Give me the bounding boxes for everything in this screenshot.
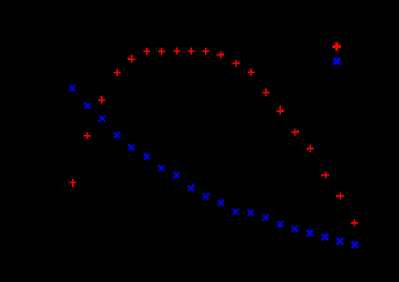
blue series data point 6: [144, 153, 150, 159]
blue series data point 18: [322, 234, 329, 241]
blue series data point 11: [218, 199, 224, 206]
blue series data point 20: [352, 241, 359, 248]
blue series data point 17: [307, 230, 314, 237]
blue series data point 2: [84, 103, 91, 109]
blue series data point 4: [114, 132, 120, 138]
red series data point 9: [188, 48, 195, 55]
red series data point 11: [216, 51, 224, 58]
red series data point 17: [307, 145, 314, 152]
red series data point 4: [114, 69, 121, 76]
red series data point 10: [202, 48, 209, 55]
blue series data point 15: [277, 221, 283, 227]
blue series data point 9: [188, 184, 194, 192]
red series data point 6: [143, 48, 150, 55]
blue series data point 7: [158, 165, 164, 171]
legend red sample marker: [333, 42, 341, 50]
blue series data point 16: [292, 226, 298, 232]
blue series data point 19: [337, 238, 344, 245]
blue series data point 5: [128, 144, 134, 150]
red series data point 12: [232, 60, 240, 67]
red series data point 15: [277, 106, 284, 115]
red series data point 5: [128, 55, 136, 63]
blue series data point 1: [69, 85, 75, 91]
red series data point 3: [98, 96, 105, 104]
red series data point 13: [248, 69, 255, 76]
blue series data point 10: [203, 193, 210, 200]
red series data point 16: [291, 129, 299, 136]
blue series data point 14: [263, 215, 269, 221]
red series data point 20: [351, 219, 358, 226]
red series data point 1: [69, 179, 76, 187]
blue series data point 13: [248, 210, 254, 216]
red series data point 14: [263, 89, 270, 96]
blue series data point 3: [98, 116, 105, 122]
red series data point 7: [158, 48, 165, 55]
blue series data point 12: [233, 209, 239, 215]
blue series data point 8: [173, 172, 180, 178]
red series data point 2: [83, 132, 90, 139]
red series data point 8: [174, 48, 181, 55]
red series data point 19: [336, 192, 344, 199]
red series data point 18: [321, 172, 329, 179]
legend blue sample marker: [334, 58, 341, 65]
